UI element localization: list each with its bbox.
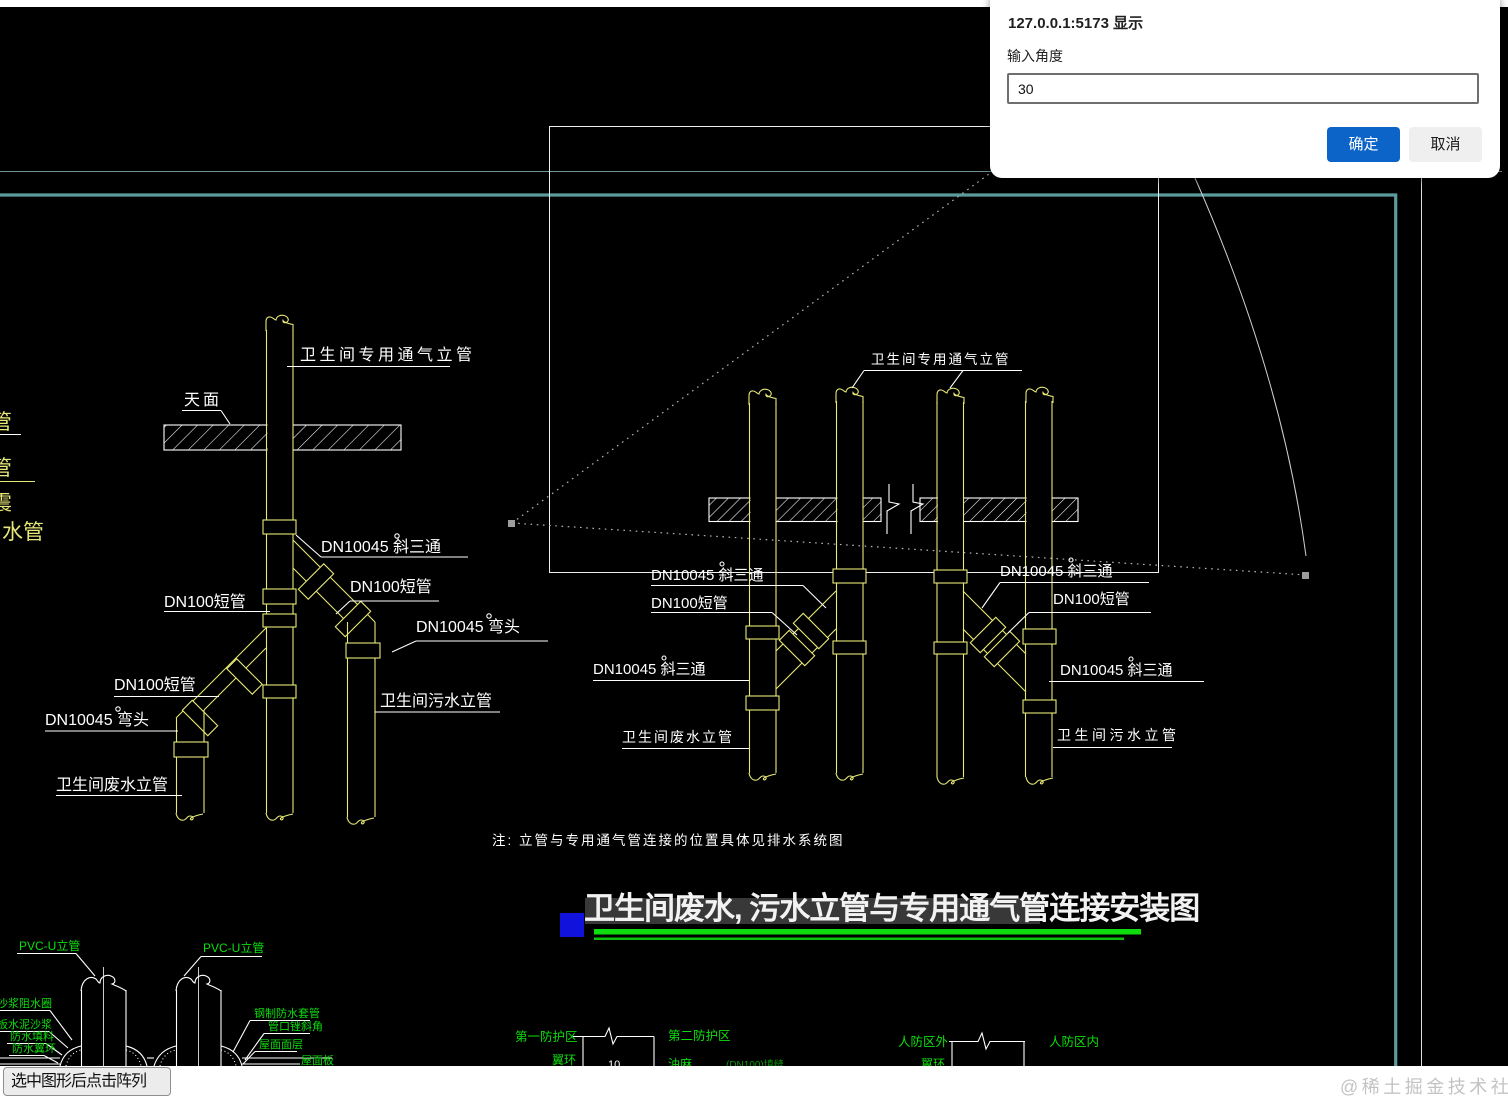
green title underline thin: [594, 938, 1124, 941]
svg-text:天面: 天面: [184, 392, 222, 409]
coupling A on vent stack: [263, 520, 296, 534]
underline: [1053, 747, 1172, 749]
rotated coupling pair1-a: [793, 613, 828, 648]
PVC-U riser 2 (white): [176, 975, 221, 1066]
leader: [0, 1011, 72, 1041]
underline of 卫生间污水立管: [375, 711, 500, 713]
svg-text:人防区内: 人防区内: [1049, 1034, 1099, 1049]
label DN10045 斜三通 (pair2 top): [1000, 563, 1113, 580]
svg-text:人防区外: 人防区外: [898, 1034, 949, 1049]
leader of 卫生间专用通气立管: [852, 371, 1022, 389]
svg-text:DN10045 斜三通: DN10045 斜三通: [1060, 662, 1173, 679]
branch pipe pair2 (45 degrees): [963, 591, 1026, 692]
vent riser pipe 3: [937, 388, 964, 784]
underline: [622, 748, 749, 750]
svg-text:泥沙浆阻水圈: 泥沙浆阻水圈: [0, 996, 52, 1010]
label DN100短管 (left diagram, upper-left): [164, 593, 246, 611]
label 卫生间专用通气立管 (left diagram): [300, 346, 476, 364]
svg-text:卫生间污水立管: 卫生间污水立管: [380, 692, 492, 710]
roof slab right (left half): [709, 498, 881, 522]
underline of DN100短管 upper-left: [164, 611, 270, 613]
label 卫生间废水立管 (left diagram): [56, 776, 168, 794]
vent stack (central yellow pipe): [266, 315, 293, 820]
leader: [9, 1056, 58, 1064]
grip handle right: [1302, 572, 1309, 579]
svg-text:DN100短管: DN100短管: [164, 593, 246, 611]
label DN100短管 (pair2): [1053, 591, 1130, 608]
branch pipe pair1 (45 degrees): [776, 591, 836, 689]
leader: [0, 1032, 68, 1049]
roof line segments: [0, 1058, 332, 1064]
waste riser pipe 1: [749, 389, 776, 780]
white underline: [0, 434, 21, 436]
leader of DN100短管 right: [336, 601, 439, 614]
underline pair2 right: [1049, 681, 1204, 683]
label 卫生间专用通气立管 (right diagram): [871, 352, 1011, 367]
green title underline thick: [594, 929, 1141, 935]
label DN100短管 (pair1): [651, 595, 728, 612]
bright teal frame right line: [1394, 194, 1397, 1067]
svg-text:DN100短管: DN100短管: [651, 595, 728, 612]
watermark: [1340, 1073, 1508, 1099]
rotated coupling B on right branch: [298, 564, 333, 599]
PVC-U riser 1 (white): [81, 975, 126, 1066]
centerline riser 2: [198, 967, 200, 1066]
svg-text:DN10045 弯头: DN10045 弯头: [45, 711, 149, 729]
leader line under 卫生间专用通气立管: [287, 366, 450, 368]
leader pair1 DN100短管: [651, 613, 797, 636]
svg-text:屋面面层: 屋面面层: [259, 1038, 303, 1051]
svg-text:模板水泥沙浆: 模板水泥沙浆: [0, 1017, 52, 1031]
leader pair2 top: [982, 583, 1149, 609]
rotated coupling H on left branch: [182, 700, 217, 735]
svg-text:翼环: 翼环: [552, 1053, 576, 1067]
coupling on pipe1 lower: [746, 696, 779, 710]
svg-text:DN100短管: DN100短管: [350, 578, 432, 596]
coupling on pipe3 lower: [934, 642, 967, 654]
bracket 2: [949, 1033, 1025, 1066]
svg-text:管: 管: [0, 457, 12, 480]
svg-text:DN10045 斜三通: DN10045 斜三通: [1000, 563, 1113, 580]
underline pair1 lower: [593, 680, 749, 682]
svg-text:震: 震: [0, 492, 12, 515]
label DN100短管 (left diagram right side): [350, 578, 432, 596]
rotated coupling pair2-b: [984, 631, 1019, 666]
svg-text:防水填料: 防水填料: [10, 1029, 54, 1043]
svg-text:防水翼环: 防水翼环: [12, 1041, 56, 1055]
label 卫生间污水立管 (right diagram): [1057, 727, 1180, 743]
rotated coupling G on left branch: [227, 659, 262, 694]
coupling J on vent stack: [263, 685, 296, 698]
label DN10045 弯头 (left diagram right side): [416, 618, 520, 636]
svg-text:卫生间废水立管: 卫生间废水立管: [56, 776, 168, 794]
rotated coupling pair1-b: [779, 630, 814, 665]
svg-text:卫生间废水立管: 卫生间废水立管: [622, 729, 734, 745]
leader of DN10045 弯头 right: [392, 641, 548, 652]
degree mark over label: [395, 534, 399, 538]
degree mark: [720, 562, 724, 566]
white drawing frame right border: [1421, 7, 1423, 1066]
svg-text:水管: 水管: [2, 521, 44, 544]
label DN10045 斜三通 (pair1 top): [651, 567, 764, 584]
svg-text:管口锉斜角: 管口锉斜角: [268, 1019, 323, 1033]
leader: [184, 957, 262, 977]
svg-text:管: 管: [0, 411, 12, 434]
rotated-preview dotted line (lower): [512, 523, 1306, 575]
coupling I on waste riser: [174, 742, 208, 757]
degree mark: [487, 614, 491, 618]
selection rectangle: [550, 127, 1159, 573]
vent riser pipe 2: [836, 387, 863, 780]
browser prompt dialog 127.0.0.1:5173: [990, 0, 1500, 178]
flashing mound riser 1: [60, 1046, 147, 1066]
sewage riser pipe 4: [1026, 387, 1054, 784]
rotated-preview dotted line (upper): [512, 0, 1250, 523]
left 45-degree branch pipe: [176, 628, 266, 718]
svg-text:钢制防水套管: 钢制防水套管: [254, 1006, 320, 1020]
waste riser (left yellow pipe of left diagram): [176, 710, 204, 820]
rotated coupling pair2-a: [970, 617, 1005, 652]
svg-text:DN10045 斜三通: DN10045 斜三通: [321, 538, 441, 556]
underline of DN10045 弯头 left: [45, 730, 178, 732]
dim teal frame line (top): [0, 171, 1502, 173]
leader: [245, 1034, 310, 1061]
svg-text:卫生间专用通气立管: 卫生间专用通气立管: [300, 346, 476, 364]
label DN10045 斜三通 (left diagram upper): [321, 538, 441, 556]
roof slab (left) hatched: [164, 424, 401, 451]
svg-text:PVC-U立管: PVC-U立管: [19, 938, 80, 953]
svg-text:DN10045 斜三通: DN10045 斜三通: [593, 661, 706, 678]
grip handle left: [508, 520, 515, 527]
sewage riser (right yellow pipe of left diagram): [347, 622, 375, 824]
coupling on pipe1 upper: [746, 626, 779, 639]
svg-text:DN10045 斜三通: DN10045 斜三通: [651, 567, 764, 584]
coupling on pipe4 lower: [1023, 700, 1056, 713]
label 卫生间污水立管 (left diagram): [380, 692, 492, 710]
svg-text:卫生间废水, 污水立管与专用通气管连接安装图: 卫生间废水, 污水立管与专用通气管连接安装图: [584, 891, 1199, 926]
degree mark: [1129, 657, 1133, 661]
label DN10045 斜三通 (pair1 lower): [593, 661, 706, 678]
rotated coupling C on right branch: [335, 601, 370, 636]
bright teal frame top line: [0, 193, 1397, 196]
leader: [243, 1052, 297, 1065]
slab break line 1: [887, 484, 899, 534]
degree mark: [116, 707, 120, 711]
leader: [17, 954, 95, 977]
degree mark: [1069, 558, 1073, 562]
big drawing title glow: [585, 898, 1040, 924]
leader of DN10045 斜三通: [296, 535, 468, 557]
label DN10045 弯头 (left diagram left side): [45, 711, 149, 729]
label DN100短管 (left diagram, lower-left): [114, 676, 196, 694]
svg-text:卫生间专用通气立管: 卫生间专用通气立管: [871, 352, 1011, 367]
label 卫生间废水立管 (right diagram): [622, 729, 734, 745]
coupling on pipe4 upper: [1023, 629, 1056, 644]
svg-text:PVC-U立管: PVC-U立管: [203, 940, 264, 955]
rotation arc: [1195, 178, 1306, 556]
slab break line 2: [911, 484, 923, 534]
svg-text:第一防护区: 第一防护区: [515, 1029, 578, 1044]
coupling on pipe2 lower: [833, 641, 866, 654]
coupling F on vent stack: [263, 614, 296, 627]
label 天面: [184, 392, 222, 409]
underline of DN100短管 lower-left: [114, 696, 219, 698]
white bottom strip (page background below canvas): [0, 1066, 1508, 1103]
coupling E on vent stack: [263, 589, 296, 604]
coupling D on sewage riser: [346, 643, 380, 658]
svg-text:注: 立管与专用通气管连接的位置具体见排水系统图: 注: 立管与专用通气管连接的位置具体见排水系统图: [492, 832, 845, 848]
degree mark: [662, 656, 666, 660]
right 45-degree branch pipe: [293, 540, 375, 622]
label DN10045 斜三通 (pair2 right): [1060, 662, 1173, 679]
flashing mound riser 2: [154, 1046, 242, 1066]
svg-text:屋面板: 屋面板: [301, 1053, 334, 1067]
underline of 卫生间废水立管: [56, 795, 182, 797]
centerline riser 1: [103, 967, 105, 1066]
svg-text:第二防护区: 第二防护区: [668, 1028, 731, 1043]
svg-text:卫生间污水立管: 卫生间污水立管: [1057, 727, 1180, 743]
coupling on pipe3 upper: [934, 570, 967, 583]
leader pair2 DN100短管: [1008, 613, 1151, 634]
svg-text:DN10045 弯头: DN10045 弯头: [416, 618, 520, 636]
blue handle square: [560, 913, 584, 937]
status bar hint: [3, 1067, 171, 1096]
yellow underline: [0, 481, 35, 483]
pipe interiors masking slab: [751, 497, 1052, 524]
leader pair1 top: [651, 586, 826, 609]
coupling on pipe2 upper: [833, 569, 866, 583]
svg-text:DN100短管: DN100短管: [1053, 591, 1130, 608]
svg-text:DN100短管: DN100短管: [114, 676, 196, 694]
leader: [7, 1044, 62, 1056]
bracket 1: [573, 1028, 654, 1066]
leader for 天面: [182, 411, 230, 425]
roof slab right (right half): [920, 498, 1078, 522]
leader: [233, 1021, 310, 1053]
